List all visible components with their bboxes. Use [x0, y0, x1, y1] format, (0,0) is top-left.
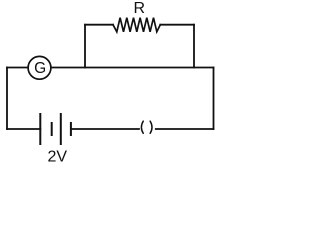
wire bottom left to battery	[7, 128, 40, 130]
wire left vertical	[6, 68, 8, 130]
wire right leg of R branch	[193, 25, 195, 68]
wire main horizontal through G	[7, 67, 214, 69]
battery long plate 2	[60, 113, 62, 145]
wire left leg of R branch	[84, 25, 86, 68]
battery short plate 2	[70, 122, 72, 136]
wire top branch right segment	[160, 24, 194, 26]
battery short plate 1	[51, 122, 53, 136]
svg-text:2V: 2V	[48, 148, 68, 165]
galvanometer G	[28, 56, 51, 79]
battery B1 2V	[40, 113, 71, 145]
svg-text:G: G	[34, 60, 46, 77]
wire battery to key	[71, 128, 139, 130]
key K (open plug key)	[141, 121, 152, 133]
svg-text:R: R	[134, 0, 146, 17]
wire right vertical	[213, 68, 215, 130]
wire key to right corner	[156, 128, 214, 130]
wire top branch left segment	[85, 24, 113, 26]
resistor R	[113, 18, 160, 32]
battery long plate 1	[39, 113, 41, 145]
